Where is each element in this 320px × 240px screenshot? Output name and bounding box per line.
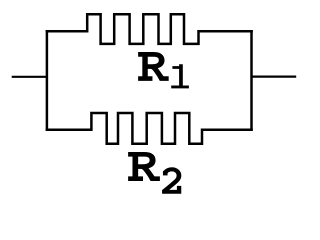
label R1 subscript 1 xyxy=(171,64,189,88)
label R1 letter R xyxy=(138,52,168,80)
wire: right external lead xyxy=(252,75,297,77)
label R2 letter R xyxy=(129,152,160,180)
wire: right vertical branch (node B) xyxy=(250,30,253,131)
label R2 subscript 2 xyxy=(162,167,181,193)
resistor R2 (bottom branch square-wave body with entry/exit rails) xyxy=(46,113,253,144)
resistor R1 (top branch square-wave body with entry/exit rails) xyxy=(46,14,253,44)
wire: left external lead xyxy=(12,76,47,78)
wire: left vertical branch (node A) xyxy=(46,30,49,131)
